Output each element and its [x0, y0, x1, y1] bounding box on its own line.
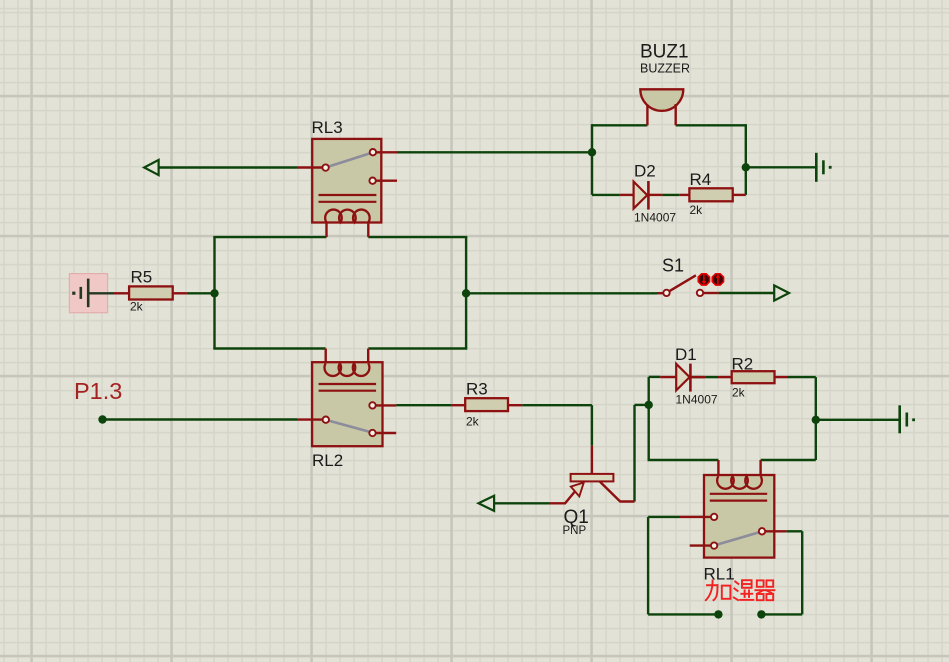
svg-text:BUZ1: BUZ1 [640, 42, 689, 63]
svg-text:2k: 2k [130, 299, 144, 313]
svg-text:1N4007: 1N4007 [676, 392, 718, 406]
svg-text:2k: 2k [466, 414, 480, 428]
svg-text:R3: R3 [466, 380, 488, 399]
svg-text:R5: R5 [131, 268, 153, 287]
svg-text:2k: 2k [690, 203, 704, 217]
svg-text:R2: R2 [732, 355, 754, 374]
svg-text:RL3: RL3 [312, 118, 343, 137]
svg-text:2k: 2k [732, 386, 746, 400]
svg-text:PNP: PNP [563, 525, 587, 537]
svg-text:D2: D2 [634, 162, 656, 181]
svg-text:R4: R4 [690, 170, 712, 189]
svg-text:BUZZER: BUZZER [640, 61, 690, 75]
svg-text:D1: D1 [675, 345, 697, 364]
svg-text:RL2: RL2 [312, 451, 343, 470]
svg-text:S1: S1 [662, 255, 684, 275]
svg-text:P1.3: P1.3 [74, 378, 122, 404]
svg-text:RL1: RL1 [704, 564, 735, 583]
svg-text:1N4007: 1N4007 [634, 210, 676, 224]
